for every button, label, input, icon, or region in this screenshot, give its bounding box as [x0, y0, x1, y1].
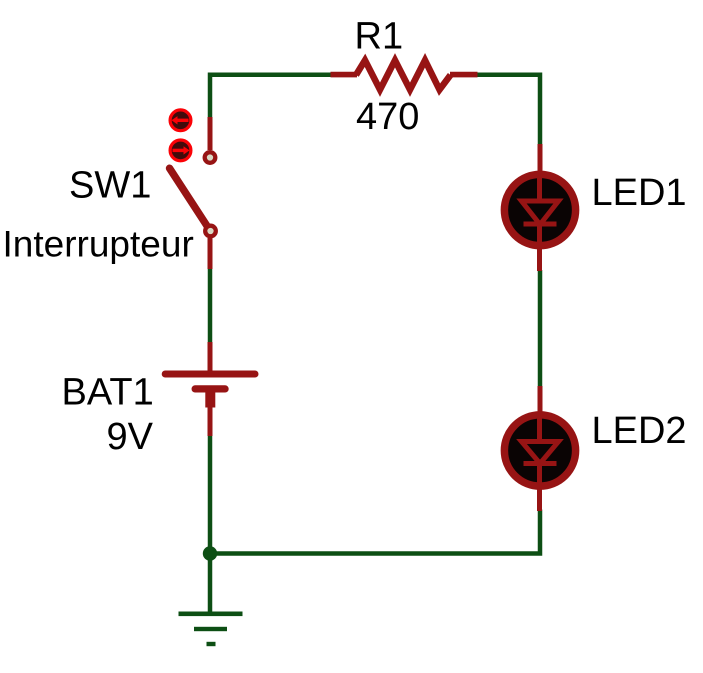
svg-text:9V: 9V: [107, 416, 154, 458]
pin stub bottom: [208, 238, 213, 269]
plate positive (long): [162, 371, 259, 378]
wire: LED1 to LED2: [538, 270, 543, 388]
wire: battery bottom to ground: [208, 434, 213, 612]
svg-text:470: 470: [356, 96, 419, 138]
anode lead inside: [537, 416, 542, 443]
cathode bar: [524, 222, 557, 227]
pin stub bottom: [208, 406, 213, 436]
diode triangle: [522, 201, 559, 225]
anode lead inside: [537, 175, 542, 203]
lever: [170, 168, 211, 230]
terminal bottom: [205, 226, 216, 237]
node: junction dot at bottom rail: [203, 546, 217, 560]
pin stub top: [538, 144, 543, 175]
svg-text:LED1: LED1: [592, 172, 687, 214]
body ring: [504, 415, 575, 486]
cathode bar: [524, 461, 557, 466]
switch toggle button down: [170, 140, 191, 161]
ground symbol: [179, 612, 243, 647]
LED1: [504, 144, 575, 271]
LED2: [504, 386, 575, 511]
svg-text:R1: R1: [355, 15, 404, 57]
svg-text:Interrupteur: Interrupteur: [3, 224, 194, 265]
switch SW1: [170, 117, 216, 269]
pin stub top: [208, 117, 213, 150]
wire: top rail right segment (resistor to LED1): [476, 75, 540, 146]
negative stub: [205, 390, 215, 408]
pin stub top: [538, 386, 543, 416]
body ring: [504, 174, 575, 245]
pin stub top: [208, 342, 213, 372]
cathode lead: [537, 464, 542, 512]
wire: top rail left segment (switch top to resistor): [210, 75, 332, 120]
wire: switch bottom to battery top: [208, 268, 213, 344]
diode triangle: [522, 442, 559, 464]
switch toggle button up: [170, 110, 191, 131]
resistor R1: [331, 60, 478, 89]
svg-text:LED2: LED2: [592, 410, 687, 452]
wire: LED2 to bottom rail: [210, 510, 540, 554]
terminal top: [205, 152, 216, 163]
svg-text:SW1: SW1: [69, 165, 151, 207]
svg-text:BAT1: BAT1: [62, 371, 154, 413]
cathode lead: [537, 224, 542, 271]
plate negative (short): [192, 385, 229, 392]
battery BAT1: [162, 342, 259, 436]
